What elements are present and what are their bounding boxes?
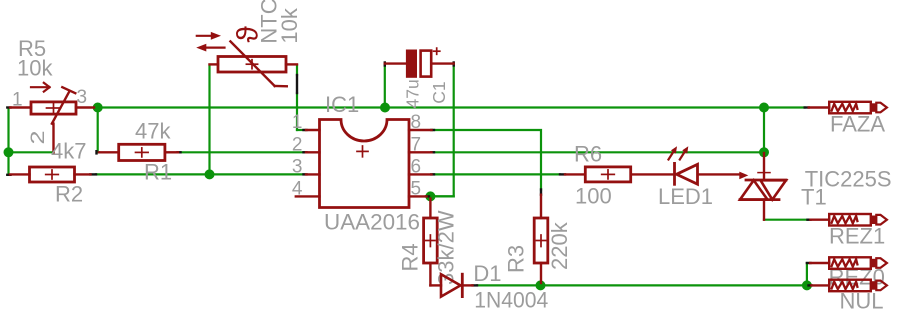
svg-text:3: 3 [292, 156, 303, 177]
junction dot: C1 left / top rail [380, 103, 390, 113]
thermistor NTC [210, 41, 298, 86]
svg-text:R3: R3 [504, 245, 529, 273]
wire: NTC right pin drop to IC pin1 [297, 65, 305, 130]
wire: C1 right plate down to pin5 dot [432, 65, 454, 197]
svg-text:T1: T1 [801, 185, 827, 210]
svg-text:47u: 47u [403, 79, 423, 108]
svg-text:6: 6 [411, 156, 422, 177]
C1 plus mark [434, 48, 440, 54]
wire: C1 left plate down to rail [384, 65, 386, 108]
svg-text:10k: 10k [17, 56, 53, 81]
junction dot: bottom rail / REZ0-NUL [802, 280, 812, 290]
svg-text:R2: R2 [55, 182, 83, 207]
IC pin stubs left [296, 130, 320, 196]
svg-text:47k: 47k [135, 119, 171, 144]
wire: triac MT1 to REZ1 [764, 219, 808, 221]
wire: IC pin8 to R3 top [433, 130, 541, 190]
svg-text:3: 3 [77, 87, 88, 108]
svg-text:FAZA: FAZA [830, 112, 885, 137]
junction dot: R3 bottom / bottom rail [536, 280, 546, 290]
svg-text:2: 2 [292, 134, 303, 155]
op-amp/IC U1: UAA2016 box [320, 120, 410, 208]
resistor R3 [534, 195, 548, 283]
wire: top rail y=107.5 from pot pin3 dot to FAZA [96, 106, 805, 108]
svg-text:LED1: LED1 [658, 184, 713, 209]
connector REZ0 [810, 257, 887, 269]
svg-text:C1: C1 [429, 81, 449, 103]
triac gate arrowhead [739, 172, 748, 180]
wire: LED1 to triac gate [699, 173, 740, 175]
potentiometer R5 [10, 83, 94, 153]
svg-text:R4: R4 [398, 243, 423, 271]
wire: NTC left pin drop to pin3 row [208, 66, 210, 175]
svg-text:IC1: IC1 [325, 92, 359, 117]
resistor R2 [10, 167, 91, 182]
IC pin stubs right [409, 130, 432, 196]
connector REZ1 [811, 214, 887, 226]
svg-text:7: 7 [411, 134, 422, 155]
diode D1 [441, 274, 473, 296]
wire: IC pin7 row to triac vertical [433, 151, 764, 153]
svg-text:UAA2016: UAA2016 [324, 210, 420, 235]
junction dot: pin7 row / triac riser [759, 147, 769, 157]
LED1 emission arrows [669, 151, 686, 159]
capacitor C1 [385, 62, 454, 64]
heat arrows (NTC) [197, 36, 225, 48]
svg-text:8: 8 [411, 112, 422, 133]
svg-text:REZ1: REZ1 [829, 224, 885, 249]
svg-text:R1: R1 [144, 160, 172, 185]
resistor R6 [565, 167, 675, 182]
svg-text:4: 4 [292, 178, 303, 199]
wire: REZ0 riser from bottom junction [806, 263, 808, 285]
LED LED1 [675, 163, 698, 184]
junction dot: top rail / triac riser (FAZA) [759, 103, 769, 113]
svg-text:D1: D1 [473, 261, 501, 286]
connector FAZA [809, 102, 887, 114]
resistor R4 [424, 199, 441, 286]
svg-text:1: 1 [292, 112, 303, 133]
resistor R1 [99, 144, 178, 160]
wire: R2/pin3 row net [96, 173, 305, 175]
black pin-joint segments [7, 63, 811, 286]
svg-text:100: 100 [575, 184, 612, 209]
wire: IC pin5 dot to C1 riser [430, 195, 453, 197]
svg-text:33k/2W: 33k/2W [434, 210, 459, 285]
junction dot: left rail / wiper [4, 147, 14, 157]
triac T1 TIC225S [740, 153, 786, 220]
connector NUL [812, 280, 887, 292]
junction dot: IC pin5 / R4 / C1 [425, 191, 435, 201]
wire: wiper row to left rail [9, 151, 54, 153]
svg-text:1: 1 [12, 90, 23, 111]
wire: R1 left drop from top rail [98, 108, 99, 153]
svg-text:4k7: 4k7 [51, 139, 86, 164]
svg-text:10k: 10k [277, 7, 302, 43]
wire: R1 right to IC pin2 [180, 151, 305, 153]
svg-text:1N4004: 1N4004 [474, 288, 548, 313]
wire: bottom rail from D1 to NUL junction [477, 284, 807, 286]
wire: triac vertical from rail to pin7 dot [763, 108, 765, 154]
svg-text:2: 2 [28, 131, 49, 145]
junction dot: NTC left / pin3 row [205, 169, 215, 179]
C1 right plate (outline) [421, 51, 432, 77]
junction dot: pot pin3 / rail / R1 drop [93, 103, 103, 113]
wire: left rail x=8.5 [7, 109, 9, 175]
svg-text:NUL: NUL [840, 289, 884, 314]
svg-text:5: 5 [411, 178, 422, 199]
wire: IC pin6 to R6 [433, 173, 560, 175]
C1 left plate (filled) [406, 50, 417, 78]
svg-text:220k: 220k [547, 221, 572, 270]
svg-text:R6: R6 [574, 142, 602, 167]
